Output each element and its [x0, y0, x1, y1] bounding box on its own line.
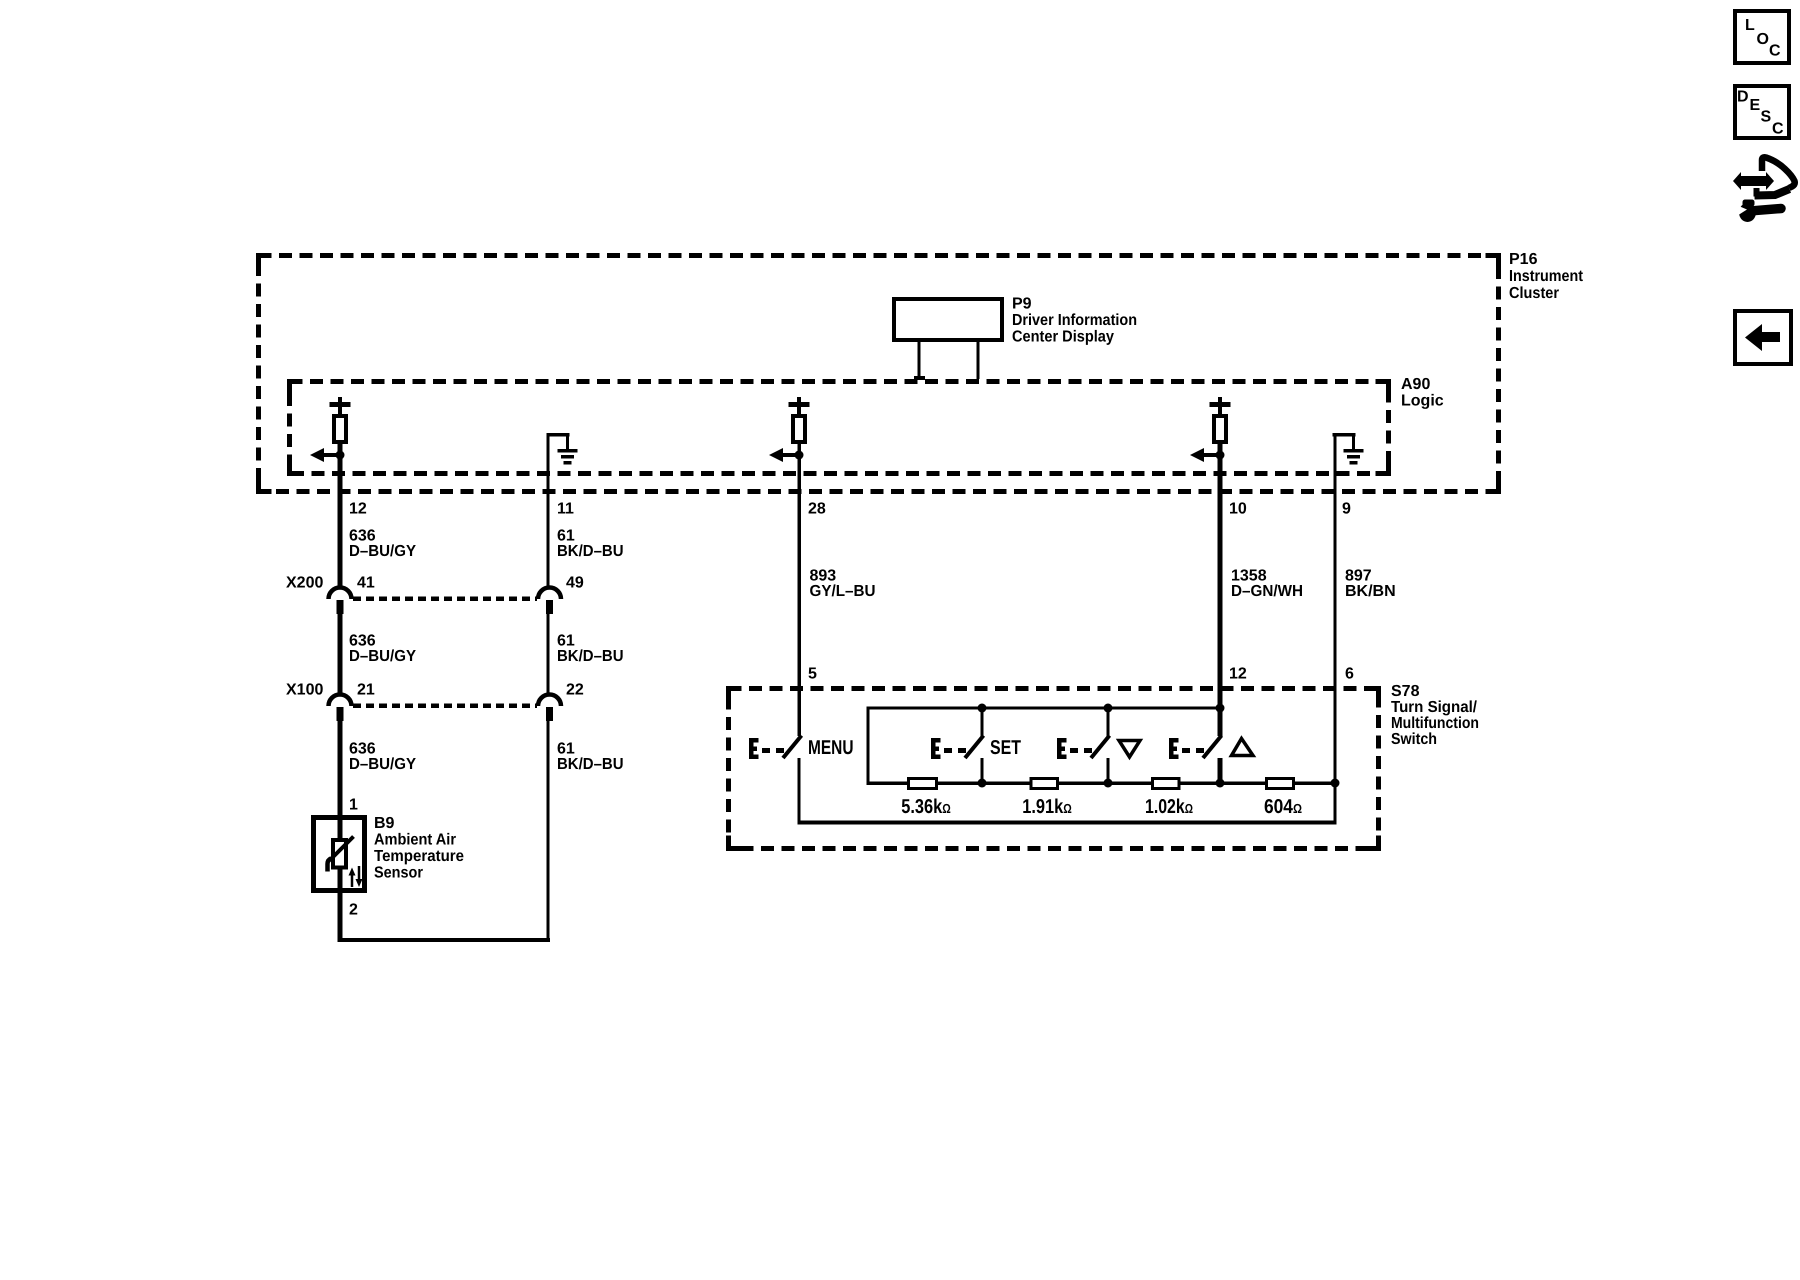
svg-text:5: 5: [808, 666, 817, 683]
wire label 61 BK/D-BU middle: [557, 633, 624, 666]
svg-text:S: S: [1761, 109, 1772, 126]
svg-text:Sensor: Sensor: [374, 865, 423, 882]
arrow pin 28: [769, 448, 799, 462]
svg-text:C: C: [1769, 43, 1781, 60]
wire label 61 BK/D-BU lower: [557, 741, 624, 774]
svg-text:12: 12: [1229, 666, 1247, 683]
svg-text:BK/D–BU: BK/D–BU: [557, 756, 624, 773]
svg-text:Multifunction: Multifunction: [1391, 715, 1479, 732]
svg-text:1358: 1358: [1231, 568, 1267, 585]
wire label 1358 D-GN/WH: [1231, 568, 1303, 601]
wire label 897 BK/BN: [1345, 568, 1396, 601]
S78 label: [1391, 683, 1479, 748]
switch MENU: [749, 736, 802, 760]
wire DOWN lower: [1107, 758, 1110, 783]
arrow pin 12: [310, 448, 340, 462]
svg-text:E: E: [1750, 97, 1761, 114]
input buffer pin 12: [330, 397, 351, 442]
back button: [1735, 311, 1791, 364]
display P9 box: [894, 299, 1002, 380]
junction dot UP top: [1216, 704, 1225, 713]
wire label 636 D-BU/GY lower: [349, 741, 416, 774]
wire UP lower: [1218, 758, 1223, 783]
svg-text:D–BU/GY: D–BU/GY: [349, 648, 416, 665]
wire SET upper: [981, 708, 984, 736]
connector X100 pin 22: [538, 695, 561, 722]
svg-text:893: 893: [810, 568, 837, 585]
svg-text:P9: P9: [1012, 296, 1032, 313]
svg-text:1: 1: [349, 797, 358, 814]
wire 636 X100 to B9: [338, 721, 343, 893]
resistor row line: [867, 782, 1337, 786]
bottom bus: [798, 821, 1337, 825]
svg-text:636: 636: [349, 528, 376, 545]
wire label 61 BK/D-BU upper: [557, 528, 624, 561]
svg-text:11: 11: [557, 501, 574, 518]
wire label 636 D-BU/GY middle: [349, 633, 416, 666]
wire 893 pin28 to S78: [798, 444, 802, 736]
resistor R2 1.91k: [1031, 779, 1058, 789]
svg-text:C: C: [1772, 121, 1784, 138]
connector X100 dashed line: [353, 704, 537, 709]
P16 label: [1509, 251, 1584, 302]
svg-text:A90: A90: [1401, 376, 1430, 393]
wire DOWN upper: [1107, 708, 1110, 736]
UP triangle label: [1232, 739, 1254, 756]
wire label 636 D-BU/GY upper: [349, 528, 416, 561]
resistor R4 604: [1267, 779, 1294, 789]
junction dot pin 10: [1216, 451, 1225, 460]
svg-text:21: 21: [357, 682, 375, 699]
DOWN triangle label: [1119, 741, 1140, 758]
svg-text:61: 61: [557, 528, 575, 545]
wire 61 X100 to corner: [547, 721, 550, 940]
svg-text:MENU: MENU: [808, 737, 854, 759]
ground pin 9: [1333, 433, 1364, 465]
svg-text:49: 49: [566, 575, 584, 592]
svg-text:Driver Information: Driver Information: [1012, 312, 1137, 329]
svg-text:X200: X200: [286, 575, 323, 592]
arrow pin 10: [1190, 448, 1220, 462]
wire 1358 pin10 to S78: [1218, 444, 1223, 736]
left bus edge: [867, 707, 870, 785]
svg-text:BK/D–BU: BK/D–BU: [557, 648, 624, 665]
wire 636 X200 to X100: [338, 614, 343, 695]
svg-text:10: 10: [1229, 501, 1247, 518]
svg-text:D: D: [1737, 89, 1749, 106]
thermistor element B9: [328, 837, 354, 872]
junction dot DOWN bottom: [1104, 779, 1113, 788]
right bus edge: [1334, 783, 1337, 823]
DESC button: [1735, 86, 1789, 138]
svg-text:D–BU/GY: D–BU/GY: [349, 756, 416, 773]
B9 label: [374, 815, 464, 882]
junction dot pin 28: [795, 451, 804, 460]
svg-text:28: 28: [808, 501, 826, 518]
svg-text:D–GN/WH: D–GN/WH: [1231, 583, 1303, 600]
connector X200 pin 49: [538, 588, 561, 615]
LOC button: [1735, 11, 1789, 63]
wire B9 pin2 down: [338, 893, 343, 942]
schematic navigation icon (double arrow, loop arrow, wrench): [1733, 157, 1795, 222]
junction dot SET bottom: [978, 779, 987, 788]
wire MENU lower: [798, 758, 801, 822]
svg-text:D–BU/GY: D–BU/GY: [349, 543, 416, 560]
switch SET: [931, 736, 984, 760]
svg-text:Instrument: Instrument: [1509, 268, 1584, 285]
S78 switch dashed box: [729, 689, 1379, 849]
wire 61 X200 to X100: [547, 614, 550, 695]
svg-text:X100: X100: [286, 682, 323, 699]
svg-text:GY/L–BU: GY/L–BU: [810, 583, 876, 600]
wire 897 ground to S78: [1334, 435, 1337, 785]
input buffer pin 28: [789, 397, 810, 442]
svg-text:B9: B9: [374, 815, 395, 832]
wire SET lower: [981, 758, 984, 783]
svg-text:Temperature: Temperature: [374, 848, 464, 865]
svg-text:636: 636: [349, 741, 376, 758]
svg-text:P16: P16: [1509, 251, 1538, 268]
ground pin 11: [547, 433, 578, 465]
connector X100 pin 21: [329, 695, 352, 722]
wire bottom return: [338, 938, 550, 942]
svg-text:12: 12: [349, 501, 367, 518]
svg-text:41: 41: [357, 575, 375, 592]
wire 636 pin12 to X200: [338, 444, 343, 587]
top bus: [867, 707, 1222, 710]
svg-text:Center Display: Center Display: [1012, 329, 1114, 346]
P9 label: [1012, 296, 1137, 346]
svg-text:61: 61: [557, 633, 575, 650]
connector X200 dashed line: [353, 597, 537, 602]
junction dot right bottom: [1331, 779, 1340, 788]
svg-text:SET: SET: [990, 737, 1021, 759]
A90 logic dashed box: [290, 382, 1389, 474]
resistor R1 5.36k: [909, 779, 937, 789]
connector X100 labels: [286, 682, 584, 699]
svg-text:O: O: [1757, 31, 1769, 48]
connector X200 labels: [286, 575, 584, 592]
variable arrows B9: [349, 866, 363, 887]
junction dot DOWN top: [1104, 704, 1113, 713]
A90 label: [1401, 376, 1444, 410]
svg-text:2: 2: [349, 902, 358, 919]
junction dot SET top: [978, 704, 987, 713]
sensor B9 box: [314, 818, 365, 891]
svg-text:9: 9: [1342, 501, 1351, 518]
switch DOWN: [1057, 736, 1110, 760]
instrument cluster P16 dashed box: [259, 256, 1499, 492]
resistor R3 1.02k: [1153, 779, 1180, 789]
svg-text:BK/D–BU: BK/D–BU: [557, 543, 624, 560]
svg-text:Ambient Air: Ambient Air: [374, 832, 456, 849]
svg-text:S78: S78: [1391, 683, 1420, 700]
wire 61 ground to X200: [547, 435, 550, 587]
svg-text:61: 61: [557, 741, 575, 758]
switch UP: [1169, 736, 1222, 760]
svg-text:Turn Signal/: Turn Signal/: [1391, 699, 1478, 716]
connector X200 pin 41: [329, 588, 352, 615]
svg-text:636: 636: [349, 633, 376, 650]
svg-text:Logic: Logic: [1401, 393, 1444, 410]
svg-text:Cluster: Cluster: [1509, 285, 1559, 302]
svg-text:BK/BN: BK/BN: [1345, 583, 1396, 600]
svg-text:22: 22: [566, 682, 584, 699]
junction dot pin 12: [336, 451, 345, 460]
svg-text:897: 897: [1345, 568, 1372, 585]
input buffer pin 10: [1210, 397, 1231, 442]
wire label 893 GY/L-BU: [810, 568, 876, 601]
svg-text:L: L: [1745, 17, 1755, 34]
junction dot UP bottom: [1216, 779, 1225, 788]
svg-text:Switch: Switch: [1391, 731, 1437, 748]
svg-text:6: 6: [1345, 666, 1354, 683]
